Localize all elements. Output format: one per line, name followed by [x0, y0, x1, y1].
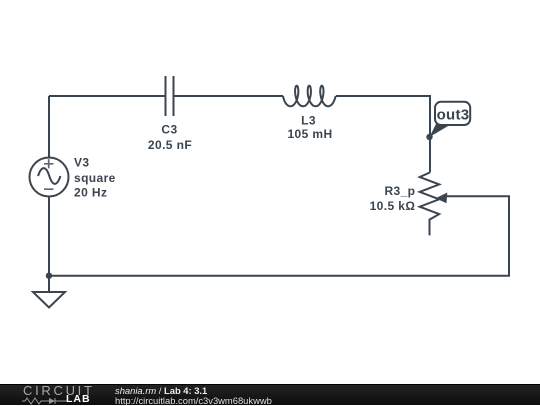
svg-text:C3: C3 — [161, 122, 177, 136]
svg-text:10.5 kΩ: 10.5 kΩ — [370, 199, 416, 213]
svg-text:V3: V3 — [74, 156, 89, 170]
svg-text:out3: out3 — [437, 106, 470, 123]
svg-text:L3: L3 — [301, 113, 316, 127]
svg-text:R3_p: R3_p — [384, 184, 415, 198]
svg-text:105 mH: 105 mH — [287, 127, 332, 141]
svg-text:20.5 nF: 20.5 nF — [148, 138, 192, 152]
svg-text:20 Hz: 20 Hz — [74, 186, 107, 200]
svg-text:square: square — [74, 171, 116, 185]
